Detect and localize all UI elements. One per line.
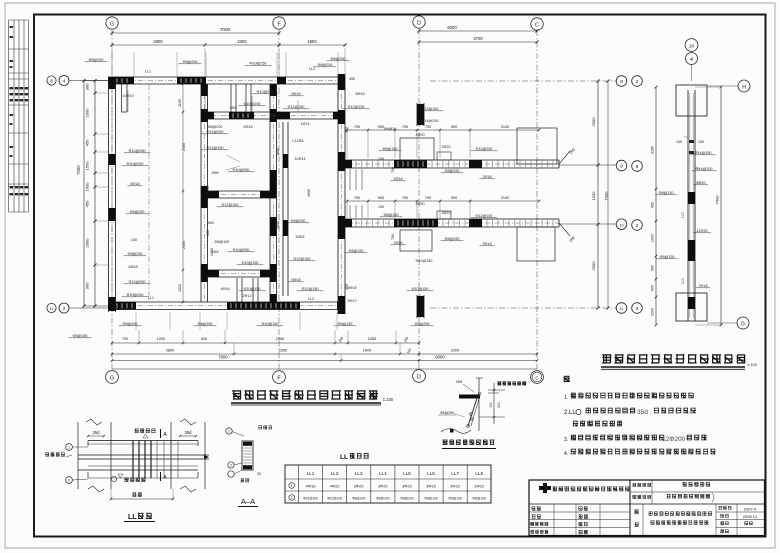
svg-text:450: 450 (85, 139, 90, 146)
svg-text:12Φ200: 12Φ200 (662, 436, 686, 443)
svg-text:Φ12@150: Φ12@150 (422, 107, 439, 111)
svg-text:5Φ12: 5Φ12 (347, 299, 356, 303)
svg-text:Φ6@250: Φ6@250 (440, 411, 455, 415)
info grid right (715, 504, 717, 536)
svg-text:25: 25 (257, 472, 261, 476)
axis line D (418, 29, 420, 370)
svg-text:430: 430 (651, 202, 655, 208)
svg-text:10: 10 (620, 223, 624, 227)
bottom extension lines (135, 312, 137, 330)
svg-text:6Φ18: 6Φ18 (291, 92, 300, 96)
svg-text:4Φ22: 4Φ22 (330, 484, 341, 489)
svg-text:900: 900 (378, 196, 384, 200)
svg-text:700: 700 (402, 125, 408, 129)
rebar labels plan (69, 57, 498, 338)
axis bubbles 9/5 (559, 164, 616, 166)
svg-text:Φ14@200: Φ14@200 (422, 119, 439, 123)
top dim 6000 (419, 30, 537, 32)
svg-text:LL2: LL2 (309, 67, 315, 71)
svg-text:3Φ22: 3Φ22 (474, 484, 485, 489)
svg-text:Φ8@16: Φ8@16 (384, 127, 397, 131)
svg-text:700: 700 (425, 196, 431, 200)
svg-text:2: 2 (68, 479, 70, 483)
svg-text:4Φ20: 4Φ20 (415, 202, 424, 206)
svg-text:Φ10@250: Φ10@250 (233, 248, 250, 252)
bottom wall (108, 301, 345, 303)
svg-text:Φ8@250: Φ8@250 (123, 322, 138, 326)
company logo (539, 483, 551, 493)
svg-text:Φ12@150: Φ12@150 (222, 203, 239, 207)
svg-text:Φ10@100: Φ10@100 (327, 497, 342, 501)
svg-text:Φ12@250: Φ12@250 (129, 149, 146, 153)
elevation title 十二至十七层剪力墙体配筋图 (602, 354, 745, 363)
svg-text:Φ8@150: Φ8@150 (383, 147, 398, 151)
svg-text:52Φ4: 52Φ4 (295, 235, 304, 239)
svg-text:1: 1 (68, 446, 70, 450)
svg-text:2100: 2100 (501, 196, 509, 200)
svg-text:Φ8@130: Φ8@130 (660, 255, 675, 259)
top dim 2800/2300/1800 (112, 44, 345, 46)
svg-text:1:100: 1:100 (747, 362, 758, 367)
svg-text:LL5: LL5 (403, 471, 411, 476)
svg-text:2100: 2100 (501, 125, 509, 129)
svg-text:700: 700 (354, 125, 360, 129)
svg-text:450: 450 (85, 200, 90, 207)
axis bubble G bottom (106, 371, 119, 384)
svg-text:Φ8@130: Φ8@130 (659, 191, 674, 195)
svg-text:1800: 1800 (307, 39, 317, 44)
revision strip table (9, 20, 29, 212)
note 2b (573, 421, 623, 427)
svg-text:Φ12@150: Φ12@150 (476, 214, 493, 218)
svg-text:28: 28 (689, 44, 694, 49)
svg-text:300: 300 (85, 282, 90, 289)
svg-text:2300: 2300 (237, 39, 247, 44)
axis bubble F top (273, 17, 285, 29)
svg-text:300: 300 (497, 402, 501, 408)
svg-text:Φ8@250: Φ8@250 (331, 57, 346, 61)
interior wall V4 (337, 74, 339, 314)
wing wall A (345, 159, 559, 161)
svg-text:150: 150 (698, 140, 704, 144)
wing B door frame lines (349, 205, 351, 218)
svg-text:2: 2 (63, 306, 66, 311)
svg-text:L17: L17 (681, 212, 685, 218)
left dim chain (94, 81, 96, 307)
wall stub V5 top (416, 103, 418, 126)
left dim extension lines (95, 92, 108, 94)
svg-text:Φ12@250: Φ12@250 (476, 147, 493, 151)
svg-text:4: 4 (690, 57, 693, 63)
svg-text:700: 700 (391, 234, 395, 240)
svg-text:6000: 6000 (435, 355, 445, 360)
wing wall B left box (400, 230, 432, 251)
svg-text:2000: 2000 (85, 238, 90, 248)
svg-text:4Φ18: 4Φ18 (306, 484, 317, 489)
svg-text:LL1: LL1 (307, 471, 315, 476)
interior wall V3 (269, 84, 271, 302)
wing wall A left box (400, 138, 434, 160)
svg-text:1000: 1000 (276, 148, 280, 156)
svg-text:Φ8@250: Φ8@250 (445, 237, 460, 241)
svg-text:1.: 1. (564, 395, 568, 401)
svg-text:1Φ14: 1Φ14 (300, 122, 309, 126)
partition top-left (121, 84, 123, 112)
elev leader marks (684, 136, 688, 138)
partition shaft top A (230, 84, 232, 112)
svg-text:10Φ14: 10Φ14 (294, 157, 305, 161)
axis bubbles 11/2 right (430, 307, 616, 309)
svg-text:Φ8@150: Φ8@150 (215, 240, 230, 244)
svg-text:Φ8@100: Φ8@100 (352, 497, 365, 501)
LL bottom dim 洞宽 (111, 498, 173, 500)
LL detail bubbles (66, 444, 73, 451)
svg-text:4.: 4. (564, 451, 568, 457)
A-A labels (259, 426, 273, 430)
bottom dim row 3 (112, 360, 537, 362)
elev bottom box (676, 293, 707, 321)
svg-text:LL7: LL7 (451, 471, 459, 476)
axis bubble C top (531, 18, 543, 30)
wall stub V5 bottom (416, 295, 418, 318)
axis line C (536, 30, 538, 370)
bottom axis row line (112, 368, 537, 370)
svg-text:150: 150 (378, 205, 384, 209)
svg-text:4Φ6: 4Φ6 (211, 171, 218, 175)
svg-text:G: G (741, 322, 745, 328)
svg-text:11: 11 (620, 307, 624, 311)
elev wall black segs (688, 192, 695, 204)
svg-text:Φ8@250: Φ8@250 (291, 219, 306, 223)
wing A dim row (347, 129, 539, 131)
svg-text:3Φ22: 3Φ22 (450, 484, 461, 489)
svg-text:Φ10@250: Φ10@250 (127, 293, 144, 297)
svg-text:D: D (417, 375, 421, 381)
svg-text:LL2: LL2 (331, 471, 339, 476)
project info rows (630, 491, 765, 493)
svg-text:1: 1 (291, 484, 293, 488)
svg-text:6Φ18: 6Φ18 (291, 278, 300, 282)
wing wall B (345, 218, 559, 220)
drawing title lines (649, 512, 712, 516)
svg-text:3.: 3. (564, 437, 568, 443)
svg-text:35d: 35d (185, 430, 193, 435)
svg-text:Φ10@250: Φ10@250 (233, 168, 250, 172)
svg-text:Φ10@250: Φ10@250 (127, 162, 144, 166)
svg-text:Φ12@250: Φ12@250 (257, 90, 274, 94)
svg-text:2300: 2300 (279, 349, 287, 353)
svg-text:700: 700 (354, 196, 360, 200)
svg-text:LL6: LL6 (427, 471, 435, 476)
svg-text:,: , (650, 410, 651, 416)
svg-text:Φ12@150: Φ12@150 (294, 257, 311, 261)
elev top box (676, 85, 707, 116)
svg-text:Φ12@150: Φ12@150 (207, 146, 224, 150)
svg-text:Φ12@250: Φ12@250 (129, 280, 146, 284)
axis bubbles 8/4 left (47, 76, 56, 85)
elev right dim 7400 (720, 87, 722, 325)
svg-text:12Φ20: 12Φ20 (696, 229, 707, 233)
wing wall B small box (437, 211, 451, 219)
svg-text:5: 5 (636, 164, 639, 169)
svg-text:2Φ12: 2Φ12 (242, 294, 251, 298)
svg-text:1200: 1200 (157, 337, 165, 341)
left wall V1 (108, 77, 110, 312)
partition shaft door A (236, 278, 238, 302)
svg-text:Φ10@150: Φ10@150 (244, 287, 261, 291)
svg-text:1900: 1900 (363, 349, 371, 353)
shaft wall H3 (201, 111, 345, 113)
svg-text:2: 2 (636, 306, 639, 311)
svg-text:1000: 1000 (651, 234, 655, 242)
svg-text:2.LL: 2.LL (564, 410, 576, 416)
wing A door frame lines (349, 169, 351, 190)
svg-text:1000: 1000 (85, 182, 90, 192)
svg-text:900: 900 (651, 285, 655, 291)
svg-text:3400: 3400 (206, 186, 210, 194)
svg-text:3Φ20: 3Φ20 (402, 484, 413, 489)
drawing type col (642, 504, 644, 536)
top dim 7000 (112, 32, 279, 34)
svg-text:1600: 1600 (307, 189, 311, 197)
svg-text:Φ10@250: Φ10@250 (250, 62, 267, 66)
svg-text:H: H (742, 85, 746, 91)
svg-text:9: 9 (620, 164, 623, 169)
svg-text:LL3: LL3 (355, 471, 363, 476)
svg-text:2300: 2300 (451, 349, 459, 353)
axis line F (278, 30, 280, 370)
svg-text:2: 2 (636, 223, 639, 228)
shaft wall H4 (201, 190, 277, 192)
axis bubbles 10/2 (559, 223, 616, 225)
svg-text:Φ12@150: Φ12@150 (302, 287, 319, 291)
svg-text:2000: 2000 (85, 108, 90, 118)
LL rebar table (285, 465, 491, 503)
svg-text:900: 900 (451, 125, 457, 129)
svg-text:Φ8@250: Φ8@250 (183, 60, 198, 64)
svg-text:1320: 1320 (178, 284, 182, 292)
svg-text:C: C (535, 23, 539, 29)
wing wall A right box (517, 128, 557, 164)
svg-text:Φ8@150: Φ8@150 (198, 322, 213, 326)
svg-text:Φ10@150: Φ10@150 (262, 322, 279, 326)
wing wall A end arrow (559, 151, 570, 164)
top dim 3700 (419, 41, 537, 43)
svg-text:LL1: LL1 (148, 296, 154, 300)
right dim chain (597, 81, 599, 308)
svg-text:Φ8@250: Φ8@250 (130, 210, 145, 214)
svg-text:G: G (110, 22, 114, 28)
svg-text:Φ8@150: Φ8@150 (73, 334, 88, 338)
svg-text:450: 450 (345, 284, 349, 290)
svg-text:700: 700 (391, 167, 395, 173)
svg-text:2Φ20: 2Φ20 (441, 145, 450, 149)
svg-text:700: 700 (402, 196, 408, 200)
svg-text:2300: 2300 (276, 337, 284, 341)
svg-text:150: 150 (131, 238, 137, 242)
top wall (108, 76, 345, 78)
svg-text:2007-4: 2007-4 (744, 507, 757, 512)
svg-text:6Φ18: 6Φ18 (130, 182, 139, 186)
corridor columns V3b (282, 122, 284, 296)
note header 注 (564, 376, 570, 382)
svg-text:3Φ20: 3Φ20 (426, 484, 437, 489)
LL label lower bars (125, 478, 146, 482)
svg-text:1: 1 (228, 430, 230, 434)
svg-text:Φ10@150: Φ10@150 (242, 261, 259, 265)
svg-text:2400: 2400 (182, 143, 186, 151)
A-A section (242, 441, 253, 470)
company name (553, 487, 630, 492)
svg-text:2800: 2800 (166, 349, 174, 353)
svg-text:L12Φ4: L12Φ4 (292, 139, 303, 143)
svg-text:4Φ20: 4Φ20 (415, 133, 424, 137)
svg-text:Φ8@150: Φ8@150 (349, 249, 364, 253)
svg-text:Φ8@250: Φ8@250 (89, 58, 104, 62)
svg-text:2400: 2400 (182, 241, 186, 249)
svg-text:450: 450 (349, 77, 355, 81)
svg-text:Φ8@100: Φ8@100 (448, 497, 461, 501)
wing B dim row (347, 200, 539, 202)
elev axis bubble G2 (737, 317, 749, 329)
svg-text:2600: 2600 (591, 261, 596, 271)
axis bubble F bottom (273, 371, 286, 384)
svg-text:2Φ8: 2Φ8 (456, 380, 463, 384)
stair detail title (443, 440, 495, 445)
section mark A bottom (160, 472, 162, 481)
svg-text:D: D (417, 21, 421, 27)
svg-text:Φ8@250: Φ8@250 (128, 252, 143, 256)
svg-text:6Φ18: 6Φ18 (128, 265, 137, 269)
svg-text:7000: 7000 (220, 27, 231, 32)
svg-text:1000: 1000 (276, 221, 280, 229)
svg-text:700: 700 (425, 125, 431, 129)
svg-text:Φ8@250: Φ8@250 (415, 322, 430, 326)
svg-text:Φ12@150: Φ12@150 (288, 105, 305, 109)
svg-text:2Φ18: 2Φ18 (393, 177, 402, 181)
elev wall strip (687, 90, 689, 321)
bottom dim row 2 (112, 353, 537, 355)
svg-text:Φ10@150: Φ10@150 (412, 287, 429, 291)
svg-text:4Φ6: 4Φ6 (229, 106, 236, 110)
svg-text:8: 8 (620, 79, 623, 84)
svg-text:2Φ18: 2Φ18 (482, 175, 491, 179)
svg-text:2: 2 (291, 496, 293, 500)
partition shaft door B (252, 278, 254, 302)
room centerline dashed (148, 84, 150, 302)
svg-text:Φ10@150: Φ10@150 (416, 259, 433, 263)
svg-text:Φ14@150: Φ14@150 (695, 151, 712, 155)
axis line G (111, 30, 113, 370)
svg-text:450: 450 (345, 127, 349, 133)
axis bubbles 8/2 right (430, 80, 616, 82)
svg-text:200: 200 (206, 230, 210, 236)
top extension lines (133, 52, 135, 77)
elev axis bubble 28 (685, 39, 698, 52)
svg-text:Φ8@150: Φ8@150 (384, 213, 399, 217)
svg-text:2Φ20: 2Φ20 (441, 211, 450, 215)
axis bubble G top (106, 17, 118, 29)
svg-text:3Φ20: 3Φ20 (378, 484, 389, 489)
svg-text:2800: 2800 (153, 39, 163, 44)
svg-text:Φ8@250: Φ8@250 (318, 63, 333, 67)
signature grid (529, 503, 630, 505)
wing wall B end arrow (559, 223, 570, 236)
LL label left 洞边中层 (45, 453, 65, 457)
LL beam detail (78, 419, 209, 492)
svg-text:2600: 2600 (591, 117, 596, 127)
svg-text:150: 150 (489, 402, 493, 408)
svg-text:3150: 3150 (651, 146, 655, 154)
interior wall V2 (200, 84, 202, 302)
plan title 十二至十七层混凝土筒体配筋图 (232, 390, 378, 400)
svg-text:3Φ20: 3Φ20 (354, 484, 365, 489)
svg-text:1000: 1000 (591, 191, 596, 201)
svg-text:LL1: LL1 (145, 70, 151, 74)
bottom dim row 1 (112, 342, 419, 344)
room interior dim line (182, 84, 184, 302)
svg-text:G: G (110, 376, 114, 382)
left dim 7000 (83, 81, 85, 307)
wing wall A small box (437, 152, 451, 160)
svg-text:300: 300 (85, 83, 90, 90)
svg-text:LL4: LL4 (379, 471, 387, 476)
svg-text:LL8: LL8 (475, 471, 483, 476)
svg-text:Φ12@250: Φ12@250 (207, 130, 224, 134)
svg-text:2Φ18: 2Φ18 (698, 284, 707, 288)
elev axis bubble H (738, 80, 750, 92)
svg-text:Φ8@100: Φ8@100 (376, 497, 389, 501)
svg-text:Φ14@200: Φ14@200 (696, 167, 713, 171)
svg-text:2: 2 (230, 464, 232, 468)
svg-text:Φ12@150: Φ12@150 (348, 105, 365, 109)
elev left dim (655, 87, 657, 325)
svg-text:150: 150 (676, 140, 682, 144)
svg-text:Φ8@150: Φ8@150 (338, 322, 353, 326)
svg-text:8: 8 (50, 79, 53, 84)
svg-text:2: 2 (636, 79, 639, 84)
svg-text:Φ8@100: Φ8@100 (424, 497, 437, 501)
svg-text:LL: LL (128, 514, 137, 521)
svg-text:LL2: LL2 (308, 297, 314, 301)
svg-text:700: 700 (122, 337, 128, 341)
svg-text:11: 11 (50, 307, 54, 311)
axis bubble D bottom (413, 370, 426, 383)
svg-text:4Φ16: 4Φ16 (220, 287, 229, 291)
axis bubble D top (413, 16, 425, 28)
svg-text:L10: L10 (681, 278, 685, 284)
svg-text:500: 500 (651, 265, 655, 271)
svg-text:3700: 3700 (473, 36, 483, 41)
svg-text:900: 900 (451, 196, 457, 200)
svg-text:150: 150 (378, 157, 384, 161)
svg-text:Φ8@250: Φ8@250 (445, 169, 460, 173)
svg-text:35d: 35d (637, 409, 648, 416)
svg-text:Φ8@200: Φ8@200 (208, 125, 223, 129)
svg-text:2Φ20: 2Φ20 (393, 241, 402, 245)
A-A bubbles (226, 428, 232, 434)
svg-text:7000: 7000 (76, 165, 81, 175)
svg-text:Φ8@100: Φ8@100 (473, 497, 486, 501)
svg-text:940: 940 (201, 337, 207, 341)
svg-text:1:100: 1:100 (383, 397, 394, 402)
svg-text:1000: 1000 (651, 308, 655, 316)
partition shaft top B (245, 84, 247, 112)
svg-text:1100: 1100 (178, 99, 182, 107)
svg-text:6Φ18: 6Φ18 (355, 92, 364, 96)
svg-text:1300: 1300 (210, 248, 214, 256)
svg-text:6000: 6000 (447, 25, 457, 30)
